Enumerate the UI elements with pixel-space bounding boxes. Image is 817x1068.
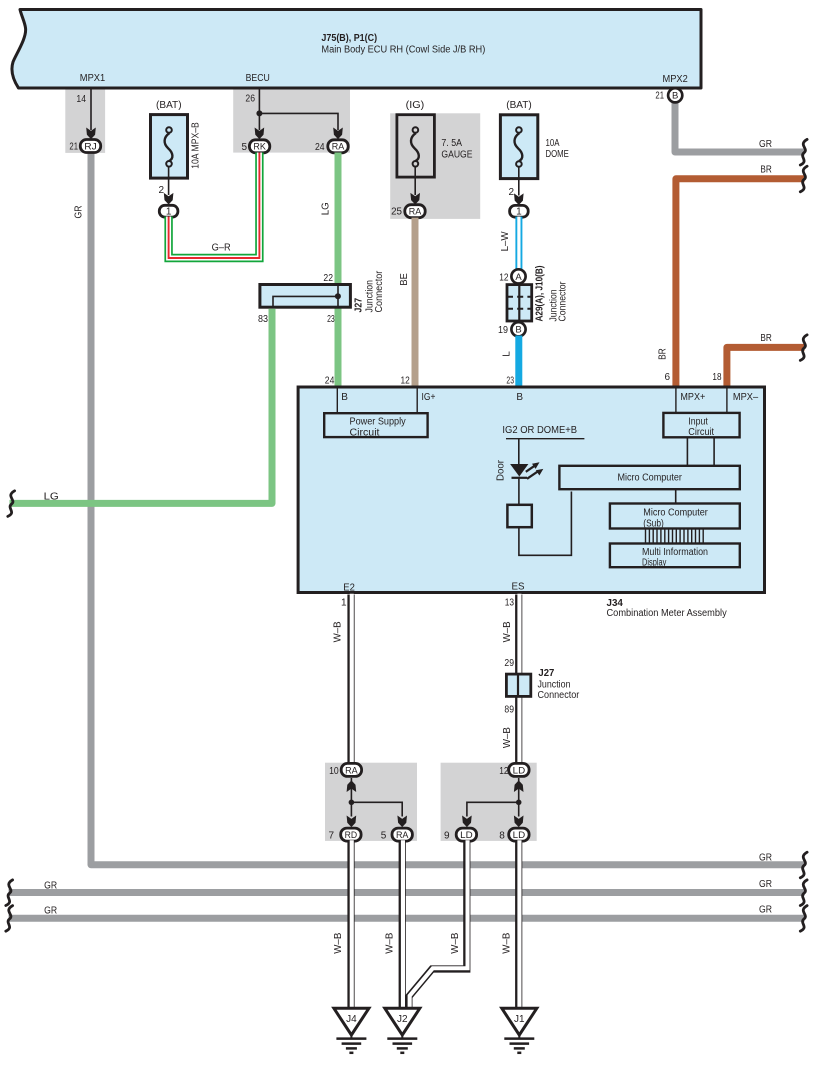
svg-text:LD: LD bbox=[513, 830, 526, 841]
combination meter assembly box J34 bbox=[298, 387, 764, 593]
svg-text:10: 10 bbox=[329, 766, 339, 777]
svg-text:Input: Input bbox=[688, 417, 708, 428]
main body ECU box J75(B), P1(C) bbox=[12, 10, 701, 89]
svg-text:83: 83 bbox=[258, 314, 268, 325]
terminal 12 LD bbox=[499, 763, 529, 777]
shaded panel left splice block bbox=[325, 763, 417, 841]
svg-text:23: 23 bbox=[327, 314, 335, 325]
svg-text:BECU: BECU bbox=[246, 73, 270, 84]
svg-text:IG2 OR DOME+B: IG2 OR DOME+B bbox=[502, 425, 577, 436]
splice crossbar to 9 LD bbox=[467, 802, 519, 816]
svg-text:B: B bbox=[516, 392, 523, 403]
svg-text:IG+: IG+ bbox=[422, 392, 436, 403]
input circuit block bbox=[663, 413, 739, 438]
svg-text:GR: GR bbox=[74, 206, 85, 219]
svg-text:LG: LG bbox=[44, 492, 59, 503]
driver block (small square) bbox=[507, 505, 531, 527]
pin 26 lead from BECU bbox=[245, 88, 259, 130]
svg-text:DOME: DOME bbox=[546, 149, 570, 160]
terminal 7 RD bbox=[328, 828, 361, 841]
svg-text:W–B: W–B bbox=[502, 727, 513, 748]
svg-text:LD: LD bbox=[513, 765, 526, 776]
svg-text:BR: BR bbox=[760, 165, 771, 176]
svg-text:Multi Information: Multi Information bbox=[642, 547, 708, 558]
node IG2 OR DOME+B bbox=[502, 425, 584, 439]
svg-text:LD: LD bbox=[460, 830, 473, 841]
svg-text:5: 5 bbox=[381, 831, 387, 842]
pin 2 lead of fuse DOME bbox=[508, 167, 523, 205]
svg-text:G–R: G–R bbox=[212, 242, 231, 253]
svg-text:RA: RA bbox=[332, 142, 345, 153]
arrowhead into terminal 5 RA bbox=[397, 816, 407, 828]
svg-text:Power Supply: Power Supply bbox=[350, 417, 406, 428]
pin 14 lead from MPX1 bbox=[76, 88, 95, 139]
splice lead 12 LD to dot bbox=[518, 778, 520, 802]
svg-text:5: 5 bbox=[241, 142, 247, 153]
junction dot on pin 26 lead bbox=[256, 110, 262, 116]
terminal 8 LD bbox=[499, 828, 529, 841]
svg-text:A29(A), J10(B): A29(A), J10(B) bbox=[535, 266, 546, 322]
svg-text:7: 7 bbox=[328, 831, 334, 842]
svg-text:Circuit: Circuit bbox=[350, 428, 380, 439]
wire branch to terminal 24 RA bbox=[259, 113, 338, 130]
svg-text:12: 12 bbox=[499, 766, 509, 777]
splice lead down to 8 LD bbox=[518, 802, 520, 816]
lead from fuse GAUGE to terminal 25 RA bbox=[410, 167, 420, 205]
arrowhead into terminal 9 LD bbox=[462, 816, 472, 828]
svg-text:J4: J4 bbox=[346, 1014, 357, 1025]
svg-text:Door: Door bbox=[496, 459, 507, 481]
svg-text:W–B: W–B bbox=[333, 932, 344, 953]
power supply circuit block bbox=[324, 413, 427, 438]
svg-text:MPX1: MPX1 bbox=[80, 73, 106, 84]
svg-text:J1: J1 bbox=[514, 1014, 525, 1025]
arrowhead into terminal 8 LD bbox=[514, 816, 524, 828]
wire GR from terminal 21 B to right edge bbox=[675, 101, 805, 152]
arrowhead into terminal 24 RA bbox=[333, 128, 343, 140]
svg-text:B: B bbox=[515, 325, 521, 336]
wire GR from terminal 21 RJ down and across bottom bbox=[91, 153, 805, 865]
shaded panel BECU connector area bbox=[233, 86, 350, 153]
terminal 12 A bbox=[499, 269, 525, 283]
pin 6 MPX+ internal lead bbox=[676, 389, 706, 414]
svg-text:(IG): (IG) bbox=[406, 100, 425, 111]
terminal 1 below fuse DOME bbox=[510, 205, 529, 217]
pin 2 lead of fuse MPX-B bbox=[158, 167, 173, 205]
continuation squiggle BR right top bbox=[800, 166, 807, 192]
ground J4 bbox=[334, 1008, 369, 1053]
svg-text:26: 26 bbox=[245, 94, 255, 105]
squiggle GR right second bbox=[800, 880, 807, 906]
door LED indicator bbox=[496, 459, 544, 481]
svg-text:W–B: W–B bbox=[385, 932, 396, 953]
wire from driver block to micro computer bbox=[519, 492, 572, 556]
svg-text:1: 1 bbox=[516, 207, 522, 218]
svg-text:Display: Display bbox=[642, 557, 666, 568]
arrowhead up into terminal 10 RA bbox=[347, 780, 357, 792]
svg-text:13: 13 bbox=[505, 598, 515, 609]
micro computer sub block bbox=[610, 504, 740, 530]
svg-text:Main Body ECU RH (Cowl Side J/: Main Body ECU RH (Cowl Side J/B RH) bbox=[321, 45, 485, 56]
wire LG from J27 pin 23 to J34 pin 24 bbox=[335, 307, 342, 388]
multi information display block bbox=[610, 544, 740, 569]
junction dot left splice bbox=[349, 800, 355, 806]
svg-text:14: 14 bbox=[76, 94, 86, 105]
wire W-B from E2 pin 1 to terminal 10 RA bbox=[347, 595, 354, 765]
svg-text:J27: J27 bbox=[538, 668, 554, 679]
arrowhead up into terminal 12 LD bbox=[514, 780, 524, 792]
svg-text:10A MPX–B: 10A MPX–B bbox=[190, 122, 201, 169]
svg-text:W–B: W–B bbox=[502, 621, 513, 642]
pin 18 MPX- internal lead bbox=[727, 389, 759, 414]
terminal 21 RJ bbox=[69, 140, 100, 153]
terminal 21 B at MPX2 bbox=[655, 88, 682, 102]
ground J1 bbox=[502, 1008, 537, 1053]
svg-text:Connector: Connector bbox=[558, 281, 569, 322]
wire BR from right edge to J34 pin 18 MPX- bbox=[727, 333, 805, 388]
wire W-B 9 LD to ground J2 with jog bbox=[409, 841, 467, 1010]
shaded panel IG gauge fuse area bbox=[390, 113, 480, 219]
svg-text:10A: 10A bbox=[546, 138, 560, 149]
svg-text:GR: GR bbox=[44, 906, 57, 917]
svg-text:24: 24 bbox=[315, 142, 325, 153]
terminal 19 B bbox=[498, 322, 526, 336]
squiggle GR right first bbox=[800, 852, 807, 878]
wire W-B from ES pin 13 to terminal 12 LD bbox=[515, 595, 522, 765]
pin 12 IG+ internal lead bbox=[417, 389, 435, 414]
svg-text:GR: GR bbox=[44, 881, 57, 892]
svg-text:Junction: Junction bbox=[538, 679, 571, 690]
wires input circuit to micro computer bbox=[687, 437, 714, 466]
wire G-R from terminal 1 to terminal 5 RK bbox=[169, 153, 260, 259]
junction connector J27 upper bbox=[258, 270, 385, 325]
wire from IG2 bar to door LED bbox=[518, 439, 520, 464]
svg-text:21: 21 bbox=[655, 91, 664, 102]
ribbon bus between sub and display bbox=[646, 529, 704, 544]
shaded panel MPX1 connector area bbox=[65, 86, 105, 153]
svg-text:W–B: W–B bbox=[502, 932, 513, 953]
svg-text:RD: RD bbox=[345, 830, 358, 841]
svg-text:25: 25 bbox=[391, 207, 402, 218]
splice lead down to 7 RD bbox=[350, 802, 352, 816]
terminal 25 RA bbox=[391, 205, 425, 218]
svg-text:RA: RA bbox=[345, 765, 358, 776]
fuse 10A MPX-B (BAT) bbox=[151, 100, 202, 178]
svg-text:(BAT): (BAT) bbox=[156, 100, 182, 111]
svg-text:E2: E2 bbox=[343, 583, 355, 594]
svg-text:Connector: Connector bbox=[538, 690, 580, 701]
svg-text:1: 1 bbox=[166, 207, 172, 218]
squiggle GR left third bbox=[6, 906, 13, 932]
svg-text:ES: ES bbox=[512, 582, 525, 593]
svg-text:23: 23 bbox=[506, 376, 514, 387]
svg-text:Connector: Connector bbox=[374, 270, 385, 312]
terminal 5 RK bbox=[241, 140, 269, 153]
svg-text:2: 2 bbox=[508, 187, 514, 198]
svg-text:MPX+: MPX+ bbox=[680, 392, 705, 403]
wire GR bus third bbox=[9, 915, 805, 922]
junction connector J27 lower bbox=[504, 658, 580, 715]
squiggle GR right third bbox=[800, 906, 807, 932]
svg-text:GR: GR bbox=[759, 905, 772, 916]
svg-text:GAUGE: GAUGE bbox=[441, 150, 472, 161]
svg-text:B: B bbox=[341, 392, 348, 403]
terminal 5 RA bbox=[381, 828, 413, 841]
continuation squiggle LG left bbox=[8, 491, 15, 517]
svg-text:LG: LG bbox=[321, 202, 332, 215]
labels GR left bbox=[44, 881, 57, 917]
arrowhead into terminal 5 RK bbox=[255, 128, 265, 140]
terminal 10 RA bbox=[329, 763, 362, 777]
terminal 9 LD bbox=[444, 828, 477, 841]
pin 24 B internal lead bbox=[337, 389, 348, 414]
svg-text:2: 2 bbox=[158, 185, 164, 196]
svg-text:BR: BR bbox=[658, 348, 669, 359]
svg-text:BR: BR bbox=[760, 333, 771, 344]
svg-text:RJ: RJ bbox=[84, 141, 97, 152]
svg-text:7. 5A: 7. 5A bbox=[441, 138, 462, 149]
splice crossbar to 5 RA bbox=[351, 802, 402, 816]
wire LG from terminal 24 RA to J27 pin 22 bbox=[335, 153, 342, 285]
svg-text:21: 21 bbox=[69, 142, 78, 153]
labels GR right bbox=[759, 852, 772, 915]
svg-text:29: 29 bbox=[504, 658, 514, 669]
svg-text:A: A bbox=[515, 272, 522, 283]
wire W-B 7 RD to ground J4 bbox=[347, 841, 354, 1010]
junction connector A29(A), J10(B) bbox=[507, 266, 569, 322]
svg-text:89: 89 bbox=[504, 704, 514, 715]
wire L-W from terminal 1 to terminal 12 A bbox=[500, 217, 519, 271]
svg-text:MPX2: MPX2 bbox=[663, 74, 689, 85]
svg-text:RA: RA bbox=[396, 830, 409, 841]
wire micro computer to sub bbox=[675, 489, 677, 503]
wire W-B 5 RA to ground J2 bbox=[399, 841, 406, 1010]
wire BR from right edge to J34 pin 6 MPX+ bbox=[658, 165, 805, 388]
svg-text:22: 22 bbox=[323, 273, 333, 284]
ground J2 bbox=[385, 1008, 420, 1053]
svg-text:Micro Computer: Micro Computer bbox=[643, 508, 708, 519]
arrowhead into terminal 7 RD bbox=[347, 816, 357, 828]
svg-text:L: L bbox=[502, 351, 513, 357]
svg-text:J2: J2 bbox=[397, 1014, 408, 1025]
svg-text:Micro Computer: Micro Computer bbox=[617, 473, 682, 484]
svg-text:8: 8 bbox=[499, 831, 505, 842]
svg-text:J75(B), P1(C): J75(B), P1(C) bbox=[321, 33, 377, 44]
svg-text:B: B bbox=[672, 91, 678, 102]
continuation squiggle GR right top bbox=[800, 139, 807, 165]
svg-text:GR: GR bbox=[759, 879, 772, 890]
splice lead 10 RA to dot bbox=[350, 778, 352, 802]
svg-text:RK: RK bbox=[253, 142, 266, 153]
svg-text:24: 24 bbox=[325, 376, 335, 387]
shaded panel right splice block bbox=[441, 763, 537, 841]
svg-text:MPX–: MPX– bbox=[733, 392, 759, 403]
terminal 1 below fuse MPX-B bbox=[159, 205, 178, 217]
wire LG from J27 pin 83 to left edge bbox=[10, 309, 273, 504]
svg-text:6: 6 bbox=[664, 372, 670, 383]
wire W-B 8 LD to ground J1 bbox=[515, 841, 522, 1010]
svg-text:Circuit: Circuit bbox=[688, 427, 714, 438]
fuse 7.5A GAUGE (IG) bbox=[397, 100, 473, 177]
wire GR bus second bbox=[9, 889, 805, 896]
svg-text:GR: GR bbox=[759, 139, 772, 150]
svg-text:9: 9 bbox=[444, 831, 450, 842]
wire from LED to driver block bbox=[518, 477, 520, 505]
svg-text:BE: BE bbox=[399, 273, 410, 286]
svg-text:12: 12 bbox=[401, 376, 411, 387]
svg-text:1: 1 bbox=[341, 598, 347, 609]
junction dot right splice bbox=[516, 800, 522, 806]
wire BE from terminal 25 RA to J34 pin 12 bbox=[412, 218, 419, 388]
squiggle GR left second bbox=[6, 880, 13, 906]
continuation squiggle BR right lower bbox=[800, 335, 807, 361]
terminal 24 RA bbox=[315, 140, 348, 153]
svg-text:(Sub): (Sub) bbox=[643, 519, 664, 530]
svg-text:GR: GR bbox=[759, 852, 772, 863]
svg-text:Combination Meter Assembly: Combination Meter Assembly bbox=[607, 608, 727, 619]
svg-text:W–B: W–B bbox=[450, 932, 461, 953]
svg-text:J27: J27 bbox=[354, 297, 365, 312]
svg-text:(BAT): (BAT) bbox=[506, 100, 532, 111]
svg-text:L–W: L–W bbox=[500, 231, 511, 252]
svg-text:12: 12 bbox=[499, 273, 509, 284]
caption J34 Combination Meter Assembly bbox=[607, 598, 727, 619]
svg-text:RA: RA bbox=[409, 207, 422, 218]
fuse 10A DOME (BAT) bbox=[500, 100, 569, 179]
svg-text:19: 19 bbox=[498, 325, 508, 336]
wire L from terminal 19 B to J34 pin 23 bbox=[515, 336, 522, 389]
svg-text:W–B: W–B bbox=[333, 621, 344, 642]
svg-text:18: 18 bbox=[712, 372, 721, 383]
micro computer block bbox=[559, 466, 739, 489]
